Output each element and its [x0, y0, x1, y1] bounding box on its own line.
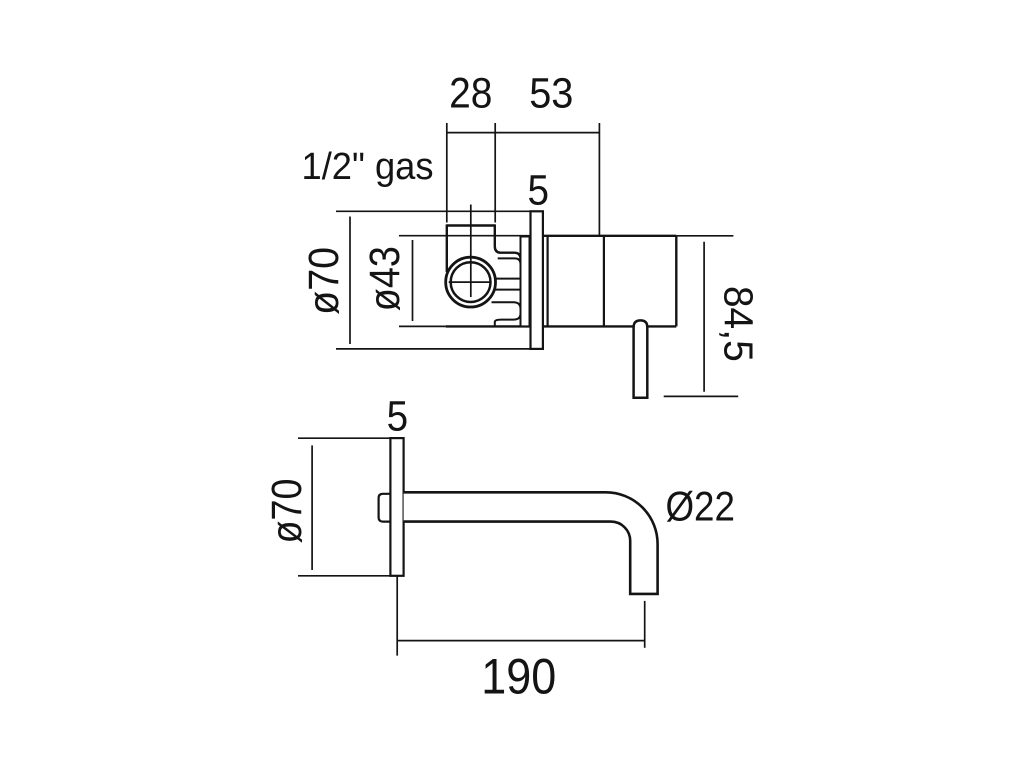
valve outer circle: [446, 257, 496, 307]
dimension line o70 (bottom view): [311, 445, 313, 570]
svg-text:ø70: ø70: [263, 479, 311, 544]
crosshair horizontal: [449, 281, 492, 283]
svg-text:5: 5: [387, 393, 409, 441]
valve boss bottom edge: [492, 302, 521, 309]
svg-text:53: 53: [529, 69, 573, 117]
valve body bottom edge: [446, 325, 677, 327]
body cylinder top edge: [543, 235, 676, 237]
valve step upper (block right edge with fillet): [495, 224, 521, 259]
stem bar top: [494, 278, 521, 280]
valve inlet block top edge: [447, 224, 495, 226]
extension line 28/53 middle: [494, 123, 496, 223]
svg-text:5: 5: [528, 167, 550, 215]
valve inner circle: [451, 262, 491, 302]
extension line o70 top (bottom view): [298, 437, 390, 439]
svg-text:190: 190: [481, 648, 556, 704]
dimension line 84,5: [703, 242, 705, 392]
centerline of gas inlet: [470, 205, 472, 298]
extension line 28 left: [446, 123, 448, 223]
extension line 53 right: [598, 123, 600, 235]
body cylinder cap line: [546, 236, 548, 327]
svg-text:84,5: 84,5: [716, 286, 762, 362]
body cylinder right edge: [675, 236, 677, 327]
stem bar bottom: [494, 289, 521, 291]
valve inlet block left edge: [446, 224, 448, 272]
extension line 84,5 bottom: [664, 395, 739, 397]
extension line o70 top (top view): [336, 210, 531, 212]
extension line o43 top: [399, 235, 530, 237]
extension line o70 bottom (top view): [336, 348, 531, 350]
handle rod: [634, 320, 648, 397]
svg-text:Ø22: Ø22: [665, 482, 735, 529]
valve step lower: [495, 314, 521, 327]
svg-text:28: 28: [449, 69, 492, 117]
dimension line o43: [412, 240, 414, 321]
extension line o70 bottom (bottom view): [298, 575, 390, 577]
extension line 190 left: [396, 576, 398, 656]
dimension line o70 (top view): [349, 217, 351, 345]
cartridge strip: [521, 237, 530, 327]
spout inlet nub: [379, 494, 391, 522]
spout tube: [404, 492, 658, 594]
extension line 84,5 top: [676, 235, 733, 237]
wall plate (bottom view): [390, 438, 403, 576]
extension line o43 bottom: [399, 325, 446, 327]
valve boss top edge: [498, 258, 521, 264]
svg-text:ø70: ø70: [300, 247, 348, 315]
dimension line 190: [397, 640, 645, 642]
body cylinder joint line: [603, 236, 605, 327]
wall plate (top view): [531, 211, 543, 349]
dimension line 28-53: [447, 132, 600, 134]
svg-text:1/2" gas: 1/2" gas: [302, 146, 434, 188]
extension line 190 right: [644, 601, 646, 648]
svg-text:ø43: ø43: [361, 246, 409, 311]
